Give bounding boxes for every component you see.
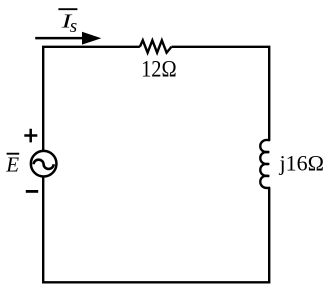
AC source E (circle)	[31, 151, 57, 177]
resistor R (zigzag)	[140, 40, 172, 52]
overbar of E	[7, 153, 20, 155]
AC source sine wave	[34, 160, 54, 169]
current arrow head	[82, 32, 101, 45]
inductor L (4 loops)	[260, 140, 269, 188]
wire: left upper + top-left segment	[43, 47, 140, 151]
svg-text:E: E	[5, 153, 19, 177]
wire: top-right + right upper segment	[171, 47, 269, 140]
svg-text:j16Ω: j16Ω	[279, 150, 324, 175]
minus sign (source polarity)	[26, 190, 38, 193]
overbar of Is	[58, 8, 77, 10]
plus sign (source polarity)	[24, 129, 37, 143]
wire: right lower + bottom + left lower segment	[43, 177, 269, 283]
svg-text:s: s	[70, 16, 77, 37]
svg-text:12Ω: 12Ω	[141, 57, 177, 82]
current arrow shaft	[35, 37, 84, 40]
